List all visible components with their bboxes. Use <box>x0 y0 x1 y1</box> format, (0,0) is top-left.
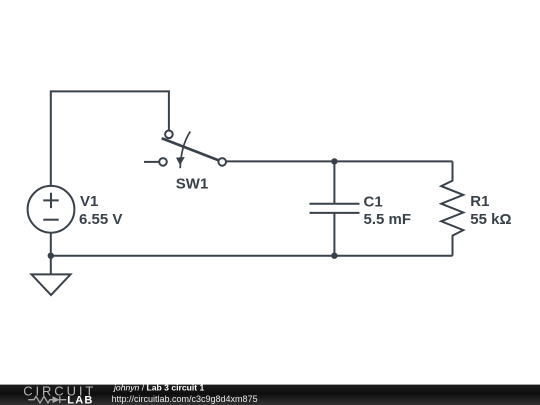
svg-text:55 kΩ: 55 kΩ <box>470 211 511 228</box>
resistor R1 <box>441 161 463 255</box>
switch SW1 <box>144 131 226 169</box>
svg-text:5.5 mF: 5.5 mF <box>364 211 412 228</box>
svg-text:SW1: SW1 <box>176 176 209 193</box>
junction node at V1 bottom <box>48 253 54 259</box>
wire node A to resistor R1 <box>334 160 452 162</box>
svg-text:johnyn / Lab 3 circuit 1: johnyn / Lab 3 circuit 1 <box>113 383 205 393</box>
wire from V1 top to switch SW1 common terminal <box>51 91 169 186</box>
ground <box>32 256 71 295</box>
footer bar <box>0 385 540 405</box>
svg-text:6.55 V: 6.55 V <box>79 211 122 228</box>
junction node A (top of C1) <box>331 158 337 164</box>
junction node at bottom of C1 <box>331 253 337 259</box>
wire V1 bottom to ground node <box>50 233 52 256</box>
bottom wire (ground net) <box>51 255 453 257</box>
wire switch SW1 to node A <box>226 160 334 162</box>
svg-text:LAB: LAB <box>67 394 93 405</box>
svg-text:R1: R1 <box>470 193 489 210</box>
svg-text:http://circuitlab.com/c3c9g8d4: http://circuitlab.com/c3c9g8d4xm875 <box>112 394 258 404</box>
voltage source V1 <box>28 186 75 233</box>
capacitor C1 <box>310 161 360 255</box>
svg-text:C1: C1 <box>364 193 383 210</box>
svg-text:V1: V1 <box>80 193 98 210</box>
CircuitLab logo resistor-diode squiggle <box>28 396 66 403</box>
